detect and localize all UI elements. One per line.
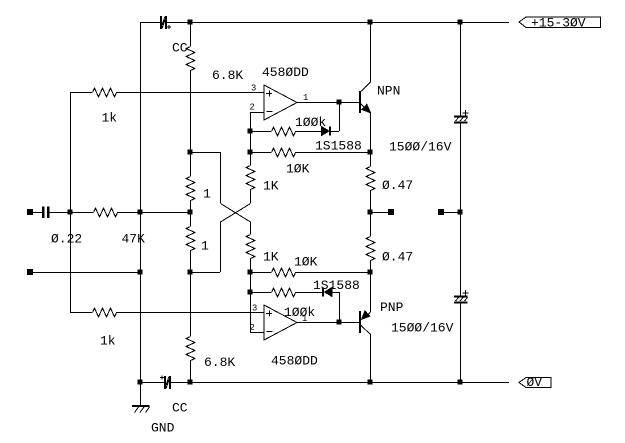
wire [33, 272, 140, 274]
svg-text:Ø.47: Ø.47 [382, 250, 413, 265]
svg-text:1K: 1K [263, 179, 279, 194]
wire [250, 292, 271, 294]
capacitor 1500/16V bottom (electrolytic) [454, 290, 469, 304]
svg-text:PNP: PNP [380, 300, 404, 315]
wire [332, 292, 339, 294]
svg-text:1S1588: 1S1588 [313, 278, 360, 293]
resistor 1k top [93, 88, 117, 97]
junction 10K / emitter top [368, 150, 373, 155]
wire crossover diagonal A [221, 204, 251, 223]
svg-text:1: 1 [203, 187, 211, 202]
wire output bottom op-amp [297, 322, 359, 324]
junction top rail / 6.8K [188, 20, 193, 25]
junction input / 1k column [68, 210, 73, 215]
svg-text:1k: 1k [100, 334, 116, 349]
capacitor 1500/16V top (electrolytic) [454, 110, 469, 124]
svg-text:1ØK: 1ØK [294, 255, 318, 270]
capacitor 0.22 input [42, 207, 50, 219]
svg-text:1K: 1K [263, 250, 279, 265]
wire ground column [140, 22, 142, 382]
resistor 0.47 bottom [366, 237, 375, 261]
resistor 10K top [272, 148, 296, 157]
wire crossover left lower [220, 222, 222, 273]
wire [190, 152, 192, 176]
svg-text:Ø.47: Ø.47 [382, 178, 413, 193]
junction bottom rail / PNP collector [368, 380, 373, 385]
wire pin 3 bottom op-amp [116, 312, 264, 314]
svg-text:NPN: NPN [377, 84, 400, 99]
junction divider bottom [188, 270, 193, 275]
wire [295, 272, 370, 274]
resistor 1 (upper divider) [186, 177, 195, 201]
wire [33, 212, 42, 214]
wire [295, 152, 370, 154]
wire [190, 22, 192, 46]
wire [460, 22, 462, 115]
op-amp U1b 4580DD (bottom) [264, 305, 297, 340]
wire [370, 212, 372, 236]
wire [70, 212, 93, 214]
wire [250, 189, 252, 203]
wire [460, 304, 462, 382]
op-amp U1a 4580DD (top) [264, 85, 297, 120]
resistor 1k bottom [93, 308, 117, 317]
junction 100k row top [248, 129, 253, 134]
wire [117, 212, 140, 214]
junction pin2 top node [248, 150, 253, 155]
resistor 1 (lower divider) [186, 227, 195, 251]
wire PNP collector [370, 334, 372, 383]
wire pin 3 top op-amp [116, 92, 264, 94]
wire [250, 258, 252, 272]
wire NPN emitter [370, 112, 372, 152]
junction output bottom [337, 320, 342, 325]
svg-text:3: 3 [251, 84, 256, 94]
wire output top op-amp [297, 102, 359, 104]
power flag +15-30V [519, 16, 601, 31]
wire [460, 212, 462, 295]
wire [370, 190, 372, 212]
resistor 0.47 top [366, 167, 375, 191]
junction top rail / NPN collector [368, 20, 373, 25]
svg-text:47K: 47K [122, 232, 146, 247]
wire [190, 152, 220, 154]
input terminal pad IN+ [27, 209, 33, 215]
wire [339, 292, 341, 322]
svg-text:1: 1 [201, 239, 209, 254]
wire bottom rail 0V [171, 382, 509, 384]
svg-text:ØV: ØV [527, 375, 543, 390]
wire [250, 222, 252, 235]
output terminal pad OUT [388, 209, 394, 215]
svg-text:1ØK: 1ØK [286, 162, 310, 177]
wire [295, 131, 322, 133]
svg-text:CC: CC [172, 41, 188, 56]
power flag 0V [519, 375, 551, 390]
wire pin 2 bottom [250, 332, 264, 334]
wire [190, 212, 192, 226]
wire [250, 152, 252, 165]
wire [444, 212, 460, 214]
junction top rail / cap column [458, 20, 463, 25]
svg-text:6.8K: 6.8K [212, 68, 243, 83]
wire [250, 152, 271, 154]
wire crossover left upper [220, 152, 222, 203]
wire [70, 312, 92, 314]
junction input return / ground column [138, 270, 143, 275]
wire input column [70, 92, 72, 312]
wire [339, 102, 341, 131]
svg-text:GND: GND [151, 421, 175, 436]
svg-text:Ø.22: Ø.22 [51, 232, 82, 247]
wire pin 2 top [250, 112, 264, 114]
svg-text:2: 2 [250, 103, 255, 113]
svg-text:15ØØ/16V: 15ØØ/16V [389, 140, 452, 155]
wire top rail +15-30V [167, 22, 509, 24]
wire [190, 272, 220, 274]
svg-text:458ØDD: 458ØDD [262, 65, 309, 80]
junction output top [337, 100, 342, 105]
output terminal pad OUT return [438, 209, 444, 215]
resistor 1K bottom [246, 235, 255, 259]
resistor 1K top [246, 166, 255, 190]
junction 47K / ground column [138, 210, 143, 215]
resistor 47K [94, 208, 118, 217]
wire [190, 200, 192, 212]
wire NPN collector [370, 22, 372, 82]
wire PNP emitter [370, 272, 372, 312]
wire [295, 292, 322, 294]
wire [140, 212, 190, 214]
resistor 6.8K bottom [186, 337, 195, 361]
input terminal pad IN- [27, 269, 33, 275]
diode 1S1588 top [322, 127, 332, 136]
wire bottom rail left [140, 382, 164, 384]
resistor 100k top [272, 127, 296, 136]
wire [190, 360, 192, 382]
transistor Q1 NPN [359, 82, 371, 113]
wire [460, 124, 462, 212]
wire [250, 131, 271, 133]
transistor Q2 PNP [359, 311, 371, 334]
svg-text:15ØØ/16V: 15ØØ/16V [391, 321, 454, 336]
wire [370, 152, 372, 166]
svg-text:CC: CC [172, 401, 188, 416]
wire crossover diagonal B [221, 204, 251, 223]
resistor 100k bottom [272, 288, 296, 297]
wire output stub [370, 212, 388, 214]
wire [250, 272, 271, 274]
wire [370, 260, 372, 272]
junction output node [368, 210, 373, 215]
svg-text:+15-3ØV: +15-3ØV [531, 16, 586, 31]
junction 10K / emitter bottom [368, 270, 373, 275]
junction bottom rail / 6.8K [188, 380, 193, 385]
wire [70, 92, 92, 94]
svg-text:1k: 1k [102, 111, 118, 126]
junction pin2 bottom node [248, 270, 253, 275]
junction 100k row bottom [248, 290, 253, 295]
wire [190, 70, 192, 152]
svg-text:1S1588: 1S1588 [315, 139, 362, 154]
resistor 6.8K top [186, 47, 195, 71]
junction bottom rail / cap column [458, 380, 463, 385]
junction output / cap column [458, 210, 463, 215]
svg-text:1: 1 [303, 93, 308, 103]
wire pin2 column bottom [250, 272, 252, 332]
junction ground column / bottom rail [138, 380, 143, 385]
svg-text:3: 3 [252, 304, 257, 314]
wire pin2 column top [250, 112, 252, 152]
wire top rail left stub [140, 22, 160, 24]
diode 1S1588 bottom [322, 288, 332, 297]
resistor 10K bottom [272, 268, 296, 277]
junction 6.8K / divider [188, 150, 193, 155]
wire [50, 212, 71, 214]
svg-text:458ØDD: 458ØDD [271, 354, 318, 369]
ground [132, 382, 150, 413]
wire [190, 250, 192, 272]
wire [190, 272, 192, 336]
junction divider midpoint [188, 210, 193, 215]
capacitor CC top (polarized, in top rail) [160, 16, 171, 29]
svg-text:6.8K: 6.8K [204, 355, 235, 370]
capacitor CC bottom (polarized, in bottom rail) [160, 376, 171, 390]
wire [331, 131, 339, 133]
